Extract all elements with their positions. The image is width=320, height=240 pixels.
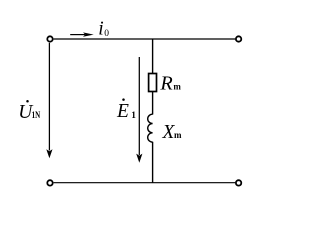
inductor Xm [148,114,153,142]
svg-text:0: 0 [104,29,109,39]
svg-text:m: m [174,130,182,140]
current arrow I0 [70,32,94,36]
svg-text:1: 1 [131,111,136,121]
terminal bottom-left [47,180,52,185]
emf arrow E1 [136,57,142,163]
svg-text:R: R [159,73,172,95]
terminal bottom-right [236,180,241,185]
svg-text:1N: 1N [32,110,41,121]
resistor Rm [149,74,157,92]
label Xm [162,122,183,143]
terminal top-left [47,36,52,41]
voltage arrow U1N [46,43,52,159]
wire Rm to Xm [152,91,154,115]
terminal top-right [236,36,241,41]
label Rm [159,73,181,95]
wire middle top (junction to Rm) [152,39,154,74]
label I0 [98,18,109,39]
label U1N [18,100,40,123]
svg-text:m: m [173,82,181,92]
svg-text:E: E [116,101,129,122]
label E1 [116,98,136,121]
wire top [54,38,236,40]
wire middle bottom (Xm to bottom wire) [152,142,154,183]
wire bottom [54,182,236,184]
svg-text:i: i [98,18,103,39]
